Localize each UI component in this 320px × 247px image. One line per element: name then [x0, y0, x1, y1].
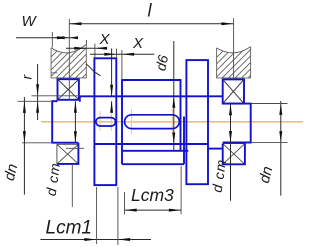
dim t left vertical: [37, 64, 39, 120]
keyway slot 2: [125, 115, 180, 129]
svg-text:l: l: [148, 1, 153, 21]
bearing bottom-left box: [57, 144, 79, 164]
shaft shoulder bottom line: [94, 143, 208, 145]
bearing top-right cross: [223, 79, 244, 103]
dim x1 ext lines: [87, 40, 95, 58]
keyway 1 centerlines: [100, 111, 111, 131]
step at left bearing: [79, 96, 81, 102]
fillet leader: [86, 64, 101, 76]
bearing top-right box: [223, 79, 244, 103]
svg-text:Lcm3: Lcm3: [131, 185, 174, 205]
dim W line: [16, 37, 77, 39]
dim d_p right vertical: [280, 101, 282, 196]
svg-text:d cm: d cm: [43, 161, 64, 196]
svg-text:W: W: [22, 13, 38, 30]
spacer ring rect right: [186, 60, 208, 184]
dim l ext right / bearing axis right: [233, 18, 235, 79]
shaft shoulder top line: [80, 95, 223, 97]
bearing top-left cross: [58, 79, 79, 100]
svg-text:d cm: d cm: [209, 158, 230, 193]
dim Lst3 line: [125, 209, 182, 211]
dim W ext lines: [52, 19, 69, 100]
dim Lst1 line: [40, 239, 151, 241]
dim x2 line: [90, 53, 154, 55]
d_p right ext lines: [251, 104, 288, 143]
dim l line: [69, 23, 233, 25]
shaft journal left: [52, 101, 78, 143]
bearing bottom-right box: [223, 144, 245, 165]
svg-text:dn: dn: [256, 165, 277, 185]
svg-text:Lcm1: Lcm1: [46, 218, 92, 239]
shaft journal right: [223, 104, 251, 143]
dim d_p inner vertical: [74, 101, 76, 143]
housing wall hatch right: [190, 44, 282, 84]
dim x2 ext lines: [117, 49, 122, 81]
svg-text:r: r: [19, 74, 35, 80]
dim d_p left vertical: [23, 97, 25, 195]
keyway slot 1: [96, 118, 116, 126]
dim d_b vertical: [173, 41, 175, 151]
d_st left leader line: [71, 164, 73, 207]
shoulder right bottom line: [208, 148, 223, 150]
axis centerline: [41, 121, 303, 123]
bearing inner ring line left: [66, 147, 84, 149]
dim t in wheel: [111, 49, 113, 112]
svg-text:X: X: [132, 35, 144, 52]
Lst3 ext lines: [125, 166, 182, 215]
pinion 3 body: [122, 80, 188, 164]
svg-text:d6: d6: [152, 53, 171, 72]
gear wheel 1 (hub): [94, 58, 116, 185]
left ext lines: [18, 96, 80, 143]
svg-text:dn: dn: [1, 162, 22, 182]
svg-text:X: X: [99, 31, 111, 48]
Lst1 ext lines: [97, 187, 118, 245]
bearing top-left box: [58, 79, 79, 100]
dim x1 line: [66, 47, 106, 49]
dim d_st right vertical: [230, 104, 232, 201]
keyway 2 centerlines: [132, 109, 173, 135]
